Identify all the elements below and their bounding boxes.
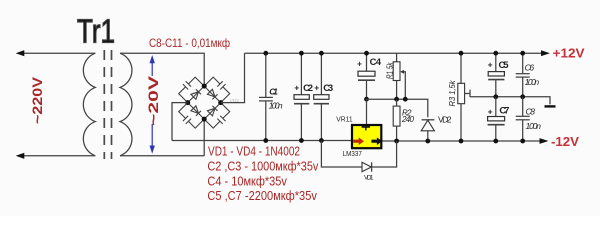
wire bridge left to negative rail — [172, 103, 188, 141]
node bridge bottom — [202, 117, 207, 122]
wire primary bottom lead — [22, 155, 95, 157]
node bridge right — [218, 100, 223, 105]
svg-text:C2: C2 — [303, 83, 313, 94]
capacitor C8 bridge outer top-left — [179, 77, 205, 103]
node C6 top — [520, 51, 525, 56]
node C4 bottom / ADJ junction — [364, 97, 369, 102]
svg-text:240: 240 — [401, 115, 415, 124]
svg-text:C5: C5 — [499, 60, 510, 71]
svg-text:+: + — [314, 82, 319, 92]
svg-text:VR11: VR11 — [336, 114, 352, 123]
capacitor C8 — [522, 97, 524, 116]
resistor R1 5k trimmer — [396, 53, 398, 62]
svg-text:R1 5k: R1 5k — [385, 62, 394, 79]
capacitor C11 bridge outer bottom-right — [204, 103, 230, 129]
ground symbol — [545, 105, 556, 107]
wire mid ground rail — [470, 97, 550, 105]
svg-text:+: + — [488, 106, 493, 116]
resistor R2 240 — [393, 106, 400, 126]
dimension arrow ~20V (blue) — [150, 55, 155, 154]
node C7 bottom — [493, 139, 498, 144]
wire C4 junction to regulator ADJ pin — [366, 99, 368, 124]
svg-text:R3 1,5k: R3 1,5k — [448, 80, 457, 107]
node C5 bottom — [493, 94, 498, 99]
svg-text:C4 - 10мкф*35v: C4 - 10мкф*35v — [207, 173, 287, 188]
diode VD2 bridge top-right — [207, 89, 217, 99]
svg-text:-12V: -12V — [551, 134, 579, 149]
wire negative rail input segment — [172, 140, 351, 142]
capacitor C5 electrolytic — [495, 53, 497, 71]
arrow primary top (mains input) — [16, 50, 25, 56]
node C1 top — [263, 51, 268, 56]
arrow primary bottom (mains input) — [16, 153, 25, 159]
svg-text:C3: C3 — [323, 83, 333, 94]
node bridge left — [185, 100, 190, 105]
svg-text:VD1 - VD4 - 1N4002: VD1 - VD4 - 1N4002 — [208, 143, 300, 158]
node R3 top — [459, 51, 464, 56]
bridge rectifier inner diamond wires — [188, 86, 221, 119]
capacitor C10 bridge outer bottom-left — [179, 103, 205, 129]
arrow +12V output — [541, 50, 550, 56]
node C2 top — [299, 51, 304, 56]
transformer core (dashed lines) — [103, 50, 105, 159]
diode VD4 bridge bottom-right — [207, 106, 217, 116]
capacitor C1 — [265, 53, 267, 97]
svg-text:VD1: VD1 — [364, 175, 374, 182]
node VD2 bottom — [425, 139, 430, 144]
svg-text:С8-С11 - 0,01мкф: С8-С11 - 0,01мкф — [149, 38, 230, 50]
svg-text:C7: C7 — [499, 106, 509, 117]
diode VD1 bridge top-left — [191, 89, 201, 99]
svg-text:C4: C4 — [370, 57, 382, 68]
node C3 top — [319, 51, 324, 56]
svg-text:+: + — [294, 82, 299, 92]
svg-text:~220V: ~220V — [30, 77, 45, 124]
transformer Tr1 secondary winding — [120, 53, 132, 156]
node C5 top — [493, 51, 498, 56]
node C4 top — [364, 51, 369, 56]
node C3 bottom junction — [319, 138, 324, 143]
notes text block — [207, 143, 318, 202]
capacitor C9 bridge outer top-right — [204, 77, 230, 103]
resistor R3 1,5k trimmer — [460, 53, 462, 83]
node R2 bottom — [394, 139, 399, 144]
arrow -12V output — [540, 138, 549, 144]
svg-text:100n: 100n — [269, 101, 283, 111]
wire positive rail +12V — [245, 52, 543, 54]
node C1 bottom — [263, 138, 268, 143]
node R1 wiper — [403, 97, 408, 102]
wire bridge right to positive rail — [221, 53, 245, 102]
wire primary top lead — [22, 52, 95, 54]
svg-text:+: + — [488, 60, 493, 70]
capacitor C6 — [522, 53, 524, 73]
node C6 bottom — [520, 94, 525, 99]
svg-text:100n: 100n — [525, 77, 540, 87]
diode VD1 protection across regulator — [321, 141, 362, 168]
wire secondary top to bridge top — [120, 53, 204, 86]
svg-text:+: + — [357, 60, 362, 69]
svg-text:C5 ,C7 -2200мкф*35v: C5 ,C7 -2200мкф*35v — [207, 188, 317, 203]
diode VD3 bridge bottom-left — [191, 106, 201, 116]
capacitor C2 electrolytic — [300, 53, 302, 94]
transformer Tr1 primary winding — [83, 53, 95, 156]
svg-text:C8: C8 — [526, 106, 536, 116]
svg-text:100n: 100n — [526, 121, 542, 131]
wire ADJ net — [367, 99, 428, 117]
svg-text:C1: C1 — [269, 87, 278, 97]
node R1 bottom — [394, 97, 399, 102]
capacitor C7 electrolytic — [495, 97, 497, 117]
wire negative rail output segment -12V — [382, 140, 541, 142]
svg-text:+12V: +12V — [553, 46, 585, 61]
svg-text:VD2: VD2 — [438, 114, 452, 124]
capacitor C3 electrolytic — [320, 53, 322, 94]
node C2 bottom — [299, 138, 304, 143]
regulator U1 LM337 (VR11) — [352, 125, 381, 148]
capacitor C4 electrolytic (ADJ bypass) — [366, 53, 368, 71]
node C8 bottom — [520, 139, 525, 144]
svg-text:C6: C6 — [525, 62, 535, 72]
svg-text:C2 ,C3 - 1000мкф*35v: C2 ,C3 - 1000мкф*35v — [207, 159, 318, 174]
svg-text:~20V: ~20V — [146, 76, 161, 126]
svg-text:LM337: LM337 — [343, 149, 362, 158]
node R3 bottom — [459, 139, 464, 144]
svg-text:Tr1: Tr1 — [77, 13, 115, 50]
wire bridge bottom to secondary bottom — [203, 119, 205, 156]
node bridge top — [202, 84, 207, 89]
diode VD2 protection — [422, 119, 435, 121]
wire secondary bottom — [120, 155, 204, 157]
